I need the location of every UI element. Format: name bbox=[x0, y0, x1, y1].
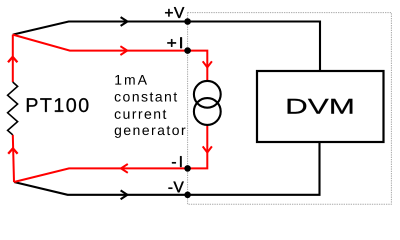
value text 1mA bbox=[115, 75, 147, 85]
wire +V black: from left corner diagonal then horizontal to DVM top bbox=[13, 22, 320, 72]
node -V label bbox=[169, 182, 184, 193]
node +I junction dot bbox=[184, 47, 191, 54]
resistor label PT100 bbox=[27, 98, 88, 112]
node +V label bbox=[165, 7, 184, 18]
wire +I red: from left corner diagonal then horizontal then down to current source bbox=[13, 35, 208, 81]
current source U1 top circle bbox=[194, 81, 221, 108]
node +I label bbox=[167, 37, 182, 48]
arrow on -I wire bbox=[121, 164, 128, 173]
wire -I red: from current source bottom down then horizontal to bottom-left corner bbox=[14, 125, 207, 182]
current direction arrow on top lead bbox=[8, 57, 17, 62]
value text generator bbox=[115, 126, 186, 138]
DVM label bbox=[288, 99, 353, 114]
node +V junction dot bbox=[184, 18, 191, 25]
arrow on -V wire bbox=[121, 190, 128, 199]
arrow out of current source bottom bbox=[203, 146, 212, 152]
DVM instrument dashed boundary bbox=[188, 13, 392, 205]
wire -V black: from bottom-left corner diagonal then horizontal to DVM bottom bbox=[14, 142, 320, 195]
current direction arrow on bottom lead bbox=[8, 148, 17, 153]
arrow on +I wire bbox=[120, 46, 127, 55]
DVM box bbox=[257, 71, 384, 142]
node -V junction dot bbox=[184, 192, 191, 199]
node -I label bbox=[172, 156, 182, 167]
value text current bbox=[115, 110, 167, 119]
red lead from resistor bottom to bottom corner bbox=[13, 135, 14, 182]
red lead from top corner to resistor top bbox=[12, 35, 14, 82]
arrow on +V wire bbox=[121, 17, 128, 26]
resistor PT100 zigzag bbox=[8, 82, 18, 135]
value text constant bbox=[115, 92, 177, 101]
arrow into current source top bbox=[203, 61, 212, 67]
node -I junction dot bbox=[184, 165, 191, 172]
current source U1 bottom circle bbox=[194, 98, 221, 125]
